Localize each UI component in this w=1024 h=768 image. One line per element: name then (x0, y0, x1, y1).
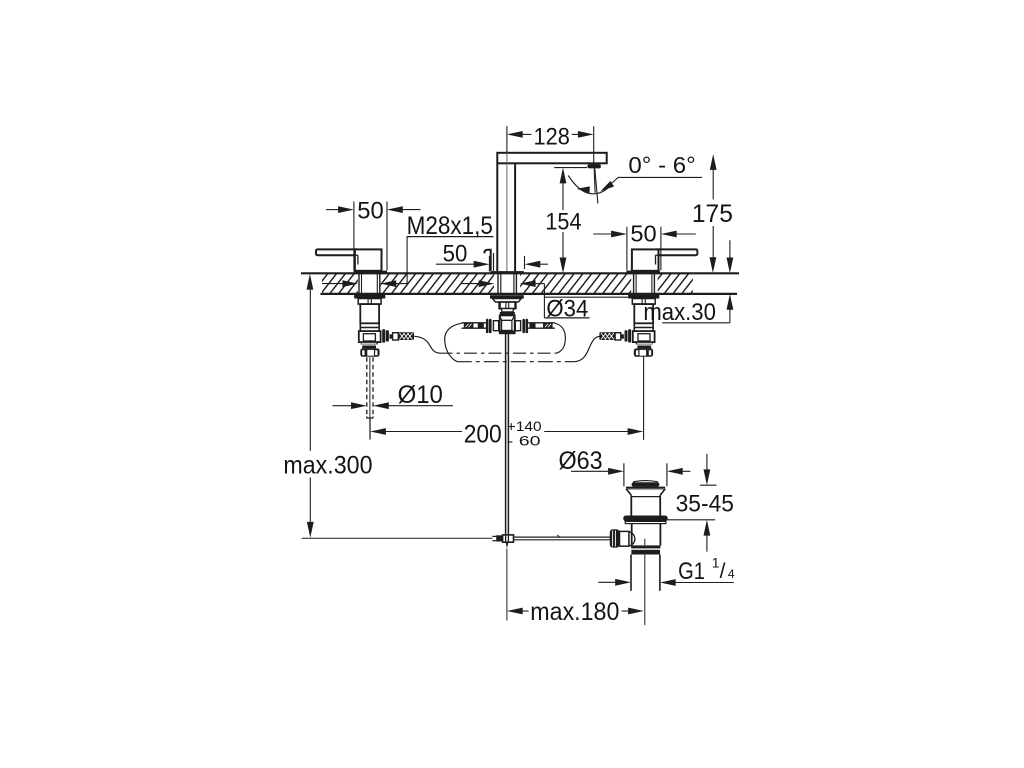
faucet valve neck (501, 309, 514, 312)
tee left supply hose stub (462, 322, 486, 324)
faucet spout vertical column (496, 163, 498, 271)
countertop deck bottom line (321, 293, 738, 295)
svg-text:G1: G1 (678, 558, 705, 585)
faucet valve top band (500, 312, 515, 315)
dimension 50 left (326, 209, 339, 211)
water stream vertical line 0deg (593, 169, 596, 193)
faucet centerline axis (506, 126, 508, 153)
drain tailpipe G1 1/4 (630, 555, 632, 591)
svg-text:128: 128 (534, 123, 570, 150)
drain plug knob (633, 481, 658, 482)
drain body bottom bands (631, 545, 660, 548)
faucet mounting locknut below deck (490, 295, 524, 298)
dimension 128 (522, 133, 532, 135)
faucet escutcheon base plate (490, 271, 523, 274)
pop-up rod tip taper (506, 542, 509, 549)
svg-text:max.300: max.300 (283, 452, 372, 480)
faucet axis extension to max180 (506, 549, 508, 621)
svg-text:1: 1 (712, 554, 720, 570)
faucet tee valve body (500, 315, 515, 333)
dimension 35-45 (706, 454, 708, 471)
dimension O34 hole arrows (461, 283, 479, 285)
drain plug neck (630, 495, 632, 515)
drain socket collar (620, 531, 629, 546)
angle arc 0-6 degrees (568, 175, 611, 193)
left handle outlet nuts (382, 329, 385, 343)
dimension 50 right (593, 233, 612, 235)
svg-text:max.180: max.180 (530, 598, 619, 626)
drain body (631, 524, 633, 546)
left handle body band (360, 322, 379, 324)
svg-text:175: 175 (692, 200, 733, 228)
svg-text:200: 200 (464, 421, 502, 449)
label O34 box (543, 284, 545, 318)
hose fold arc right (555, 323, 565, 353)
drain flange under O-ring (625, 521, 666, 523)
drain centerline (644, 539, 646, 546)
svg-text:50: 50 (357, 197, 384, 224)
hose S-curve to right handle valve (574, 336, 600, 361)
left handle locknut (354, 295, 385, 299)
dimension 154 extension under aerator (554, 167, 587, 169)
dimension 128 extension lines (593, 126, 595, 167)
faucet tee bottom band (500, 330, 515, 333)
dimension 50 left extension lines (353, 202, 355, 271)
dimension O63 (623, 463, 625, 486)
svg-text:max.30: max.30 (643, 299, 716, 326)
left handle escutcheon (354, 271, 388, 274)
svg-text:Ø10: Ø10 (398, 381, 443, 409)
label G1 1/4 (598, 581, 616, 583)
dimension max.300 (309, 289, 311, 451)
faucet spout horizontal arm (497, 153, 606, 164)
left handle upper shank segment (358, 299, 381, 305)
drain plug flare sides (626, 489, 631, 496)
dimension 50 center extension lines (488, 256, 490, 272)
left handle threaded rod dashed (366, 357, 368, 416)
tee right hose connector nuts (515, 321, 520, 331)
left handle lower hex nut (360, 348, 379, 356)
faucet shank through deck (497, 274, 499, 294)
aerator outlet (587, 164, 601, 168)
hose centerline dash-dot upper (440, 352, 557, 354)
left handle lever bar (316, 249, 358, 255)
faucet flange taper (493, 299, 522, 302)
water stream tilt line 6deg (595, 169, 598, 204)
dimension O10 (333, 405, 352, 407)
hose fold arc left (445, 323, 462, 361)
dimension max.30 (729, 240, 731, 267)
svg-text:4: 4 (728, 567, 735, 581)
linkage clevis fork (492, 535, 496, 537)
tee right supply hose stub (528, 322, 555, 324)
drain side socket serrated knob (610, 529, 620, 547)
left handle rod centerline (369, 357, 371, 439)
svg-text:50: 50 (630, 221, 656, 247)
left handle lower step (361, 342, 378, 345)
svg-text:35-45: 35-45 (676, 491, 734, 518)
svg-text:154: 154 (545, 209, 581, 236)
svg-text:/: / (720, 560, 726, 583)
left handle lower band (362, 346, 376, 349)
drain O-ring band (623, 516, 667, 522)
left handle braided hose (398, 332, 414, 340)
right handle (mirror of left) (599, 249, 697, 356)
left handle shank through deck (358, 274, 360, 294)
pop-up pull rod knob behind spout (484, 250, 490, 271)
horizontal linkage rod to drain (514, 536, 612, 538)
left handle body (355, 249, 382, 270)
drain plug lip (626, 486, 665, 488)
linkage adjuster nut (496, 535, 502, 541)
countertop deck top line (301, 272, 739, 274)
tee left hose connector nuts (486, 319, 489, 333)
svg-text:50: 50 (443, 241, 468, 268)
dimension 200 (385, 431, 462, 433)
horizontal reference line max300 (302, 537, 493, 539)
dimension 154 (562, 183, 564, 210)
svg-text:- 60: - 60 (507, 433, 541, 449)
svg-text:Ø34: Ø34 (546, 295, 588, 322)
faucet tailpiece (499, 302, 516, 309)
dimension max.180 (522, 610, 529, 612)
dimension 175 (712, 169, 714, 199)
dimension 50 right extension lines (626, 227, 628, 270)
svg-text:0° - 6°: 0° - 6° (628, 152, 695, 178)
drain ball joint arc (629, 532, 635, 546)
M28 hole arrows (322, 283, 343, 285)
dimension 200 extension left (369, 418, 371, 440)
faucet pop-up rod below tee (505, 333, 507, 542)
svg-text:Ø63: Ø63 (559, 447, 603, 475)
hose S-curve to left handle valve (414, 336, 440, 353)
left handle cartridge body (360, 304, 379, 323)
linkage swivel block (503, 535, 514, 542)
left handle valve block (359, 331, 381, 342)
hose bottom fold line (457, 361, 574, 363)
leader line 0-6 degrees (607, 177, 702, 187)
right handle extension line for 200 dim (643, 356, 645, 440)
dimension 50 center (436, 263, 475, 265)
